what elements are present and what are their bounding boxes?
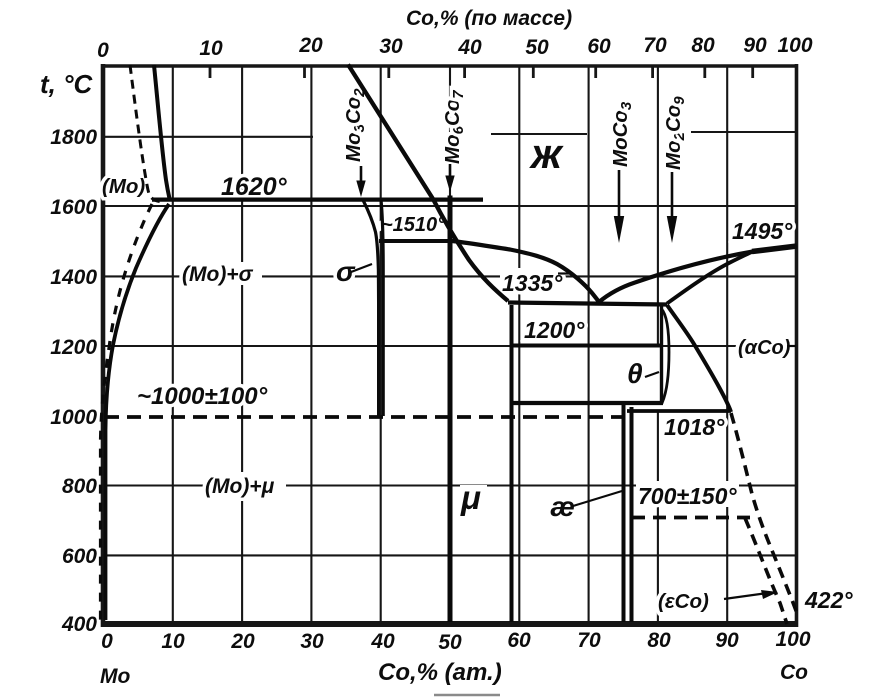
svg-text:1000: 1000: [50, 406, 97, 429]
leader ae: [573, 491, 622, 506]
leader 1335: [558, 272, 573, 274]
svg-text:~1000±100°: ~1000±100°: [137, 383, 268, 410]
(Mo) solvus solid: [106, 204, 170, 620]
svg-text:90: 90: [743, 34, 767, 57]
1620 peritectic line: [152, 198, 483, 202]
svg-text:40: 40: [457, 36, 482, 59]
svg-text:600: 600: [62, 545, 97, 568]
arrow Mo6Co7: [445, 164, 454, 192]
dashed boundary D1: [731, 413, 798, 617]
svg-text:1495°: 1495°: [732, 218, 793, 244]
mu phase vertical (50%): [448, 196, 453, 623]
svg-text:70: 70: [577, 629, 601, 652]
svg-text:1800: 1800: [50, 126, 97, 149]
svg-text:1200: 1200: [50, 336, 97, 359]
dashed boundary D2: [745, 518, 787, 624]
svg-text:30: 30: [379, 35, 403, 58]
(Mo) solidus dashed: [130, 65, 160, 202]
svg-text:μ: μ: [460, 479, 481, 516]
(aCo) solvus: [667, 305, 731, 412]
rotated compound labels: [342, 88, 688, 170]
arrow MoCo3: [614, 170, 624, 243]
1200 eutectoid line: [512, 344, 661, 348]
svg-text:20: 20: [298, 34, 323, 57]
svg-text:Mo: Mo: [100, 665, 130, 688]
arrow Mo2Co9: [667, 172, 677, 243]
svg-text:400: 400: [61, 613, 97, 636]
liquidus dome to eutectic V: [452, 241, 599, 302]
svg-text:100: 100: [775, 628, 810, 651]
main liquidus descending: [348, 65, 508, 302]
top axis ticks (mass % scale): [210, 67, 753, 78]
svg-text:800: 800: [62, 475, 97, 498]
svg-text:40: 40: [370, 630, 395, 653]
gridlines vertical: [173, 66, 727, 622]
svg-text:20: 20: [230, 630, 255, 653]
svg-text:10: 10: [161, 630, 185, 653]
svg-text:1620°: 1620°: [221, 173, 288, 201]
svg-text:90: 90: [715, 629, 739, 652]
bottom scan smudge: [434, 694, 500, 696]
svg-text:θ: θ: [627, 358, 643, 389]
svg-text:MoCo3: MoCo3: [609, 101, 635, 167]
temperature labels: [137, 173, 853, 613]
theta left vertical: [660, 306, 663, 404]
(Mo) solvus dashed: [101, 204, 153, 621]
svg-text:100: 100: [777, 34, 812, 57]
svg-text:ж: ж: [529, 130, 564, 177]
svg-text:(Mo)+σ: (Mo)+σ: [182, 263, 254, 286]
svg-text:Co: Co: [780, 661, 808, 684]
phase region labels: [102, 175, 791, 613]
arrow eCo leader: [724, 590, 778, 599]
sigma right boundary: [381, 200, 383, 416]
svg-text:(Mo)+μ: (Mo)+μ: [205, 475, 275, 498]
svg-text:10: 10: [199, 37, 223, 60]
liquidus Mo side (solid): [154, 65, 170, 201]
svg-text:(εCo): (εCo): [658, 590, 709, 613]
boundary vertical at 59%: [510, 305, 514, 622]
1018 line: [627, 409, 731, 413]
svg-text:80: 80: [691, 34, 715, 57]
svg-text:t, °C: t, °C: [40, 69, 94, 99]
svg-text:60: 60: [587, 35, 611, 58]
1335 eutectic line: [508, 303, 667, 305]
arrow Mo3Co2: [356, 166, 365, 197]
ae left vertical (75%): [622, 403, 626, 622]
svg-text:~1510°: ~1510°: [381, 214, 446, 236]
svg-text:(Mo): (Mo): [102, 175, 145, 198]
top axis numbers (mass%): [97, 34, 813, 62]
svg-text:(αCo): (αCo): [738, 337, 791, 359]
svg-text:Mo2Co9: Mo2Co9: [662, 96, 688, 170]
svg-text:1400: 1400: [50, 266, 97, 289]
leader aCo dash on 1200 gridline: [787, 345, 796, 347]
liquidus rising to Co (1495): [599, 252, 753, 303]
svg-text:Co,% (по массе): Co,% (по массе): [406, 7, 572, 30]
svg-text:Mo3Co2: Mo3Co2: [342, 88, 368, 162]
700 dashed line: [632, 516, 754, 520]
svg-text:80: 80: [647, 629, 671, 652]
svg-text:æ: æ: [550, 491, 575, 522]
merged liquidus+solidus near Co: [752, 246, 797, 252]
svg-text:1018°: 1018°: [664, 414, 725, 440]
svg-text:0: 0: [97, 39, 109, 62]
theta right arc: [662, 309, 670, 403]
leader sigma: [351, 264, 372, 272]
sigma left boundary: [363, 200, 379, 416]
~1000 dashed line: [105, 415, 623, 419]
left axis numbers: [50, 126, 97, 636]
svg-text:30: 30: [300, 630, 324, 653]
svg-text:1335°: 1335°: [502, 270, 563, 296]
svg-text:1600: 1600: [50, 196, 97, 219]
(aCo) solidus: [667, 252, 753, 304]
svg-text:422°: 422°: [804, 587, 853, 613]
ae right vertical: [630, 407, 634, 622]
1510 peritectic line: [379, 239, 452, 243]
svg-text:Mo6Co7: Mo6Co7: [441, 90, 467, 164]
svg-text:50: 50: [438, 631, 462, 654]
1050 line: [512, 401, 664, 405]
svg-text:Co,% (ат.): Co,% (ат.): [378, 659, 502, 686]
gridlines horizontal: [105, 132, 795, 555]
svg-text:50: 50: [525, 36, 549, 59]
svg-text:60: 60: [507, 629, 531, 652]
svg-text:700±150°: 700±150°: [638, 483, 737, 509]
svg-text:0: 0: [101, 630, 113, 653]
leader theta: [645, 372, 659, 377]
svg-text:1200°: 1200°: [524, 317, 585, 343]
bottom axis numbers (at%): [101, 628, 811, 654]
svg-text:70: 70: [643, 34, 667, 57]
